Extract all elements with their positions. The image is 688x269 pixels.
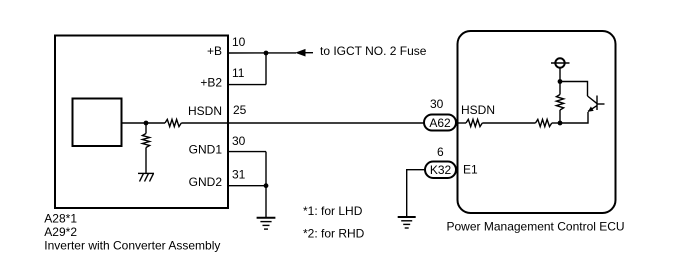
wire to transistor emitter node bbox=[552, 122, 560, 124]
earth ground (GND1/GND2) bbox=[257, 218, 276, 229]
svg-text:GND2: GND2 bbox=[189, 175, 223, 189]
inverter with converter assembly box A28/A29 bbox=[55, 36, 228, 209]
wire square to junction bbox=[122, 122, 147, 124]
resistor (inverter internal, horizontal on HSDN line) bbox=[146, 119, 181, 126]
chassis ground (inverter internal) bbox=[138, 173, 154, 181]
svg-text:6: 6 bbox=[437, 145, 444, 159]
wire junction to transistor collector bbox=[560, 82, 588, 97]
node junction on +B wire bbox=[264, 51, 269, 56]
svg-text:30: 30 bbox=[430, 97, 444, 111]
wire pull-up resistor to junction bbox=[559, 110, 561, 123]
svg-text:HSDN: HSDN bbox=[461, 103, 495, 117]
wire resistor to chassis ground bbox=[145, 148, 147, 174]
wire GND2 pin 31 bbox=[228, 185, 266, 187]
earth ground (E1) bbox=[398, 217, 416, 228]
wire power symbol down bbox=[559, 68, 561, 82]
svg-text:Power Management Control ECU: Power Management Control ECU bbox=[447, 220, 625, 234]
svg-text:*1: for LHD: *1: for LHD bbox=[303, 204, 363, 218]
node junction on GND2 wire bbox=[264, 183, 269, 188]
wire +B pin 10 bbox=[228, 52, 296, 54]
wire HSDN pin 25 to connector A62 bbox=[181, 122, 424, 124]
svg-text:A62: A62 bbox=[429, 116, 451, 130]
wire E1 to ground bbox=[407, 170, 425, 217]
svg-text:10: 10 bbox=[232, 35, 246, 49]
resistor (ECU pull-up, vertical) bbox=[556, 95, 563, 111]
wire junction down to +B2 bbox=[265, 53, 267, 85]
wire junction down to resistor bbox=[145, 123, 147, 134]
svg-text:GND1: GND1 bbox=[189, 142, 223, 156]
node junction at base of pull-up bbox=[558, 121, 563, 126]
resistor (inverter internal, vertical) bbox=[142, 134, 149, 148]
svg-text:A28*1: A28*1 bbox=[44, 211, 77, 225]
svg-text:E1: E1 bbox=[463, 162, 478, 176]
wire HSDN inside ECU to resistors bbox=[456, 122, 466, 124]
wire junction to earth ground bbox=[265, 186, 267, 218]
internal block (square) inside inverter bbox=[73, 99, 122, 147]
svg-text:*2: for RHD: *2: for RHD bbox=[303, 227, 365, 241]
arrow to IGCT NO. 2 Fuse bbox=[295, 49, 313, 57]
svg-text:+B: +B bbox=[207, 44, 222, 58]
node junction (inverter internal) bbox=[144, 121, 149, 126]
wire between ECU resistors bbox=[482, 122, 535, 124]
svg-text:30: 30 bbox=[232, 134, 246, 148]
wire junction down to pull-up resistor bbox=[559, 82, 561, 95]
wire GND1 pin 30 bbox=[228, 151, 266, 153]
svg-text:HSDN: HSDN bbox=[188, 104, 222, 118]
svg-text:to IGCT NO. 2 Fuse: to IGCT NO. 2 Fuse bbox=[320, 44, 427, 58]
wire +B2 pin 11 bbox=[228, 84, 266, 86]
svg-text:11: 11 bbox=[232, 66, 245, 80]
resistor (ECU, first on HSDN line) bbox=[466, 119, 482, 126]
power management control ECU box bbox=[458, 31, 616, 213]
connector K32 bbox=[425, 162, 456, 179]
svg-text:K32: K32 bbox=[430, 163, 452, 177]
power symbol (circle with bar) bbox=[551, 58, 570, 67]
resistor (ECU, second on HSDN line) bbox=[536, 119, 552, 126]
wire junction to transistor base leg bbox=[560, 112, 588, 123]
svg-text:25: 25 bbox=[233, 103, 247, 117]
wire GND1 down to GND2 bbox=[265, 152, 267, 186]
svg-text:31: 31 bbox=[232, 168, 246, 182]
svg-text:+B2: +B2 bbox=[200, 76, 222, 90]
svg-text:A29*2: A29*2 bbox=[44, 225, 77, 239]
connector A62 bbox=[424, 115, 456, 131]
node junction below power symbol bbox=[558, 79, 563, 84]
svg-text:Inverter with Converter Assemb: Inverter with Converter Assembly bbox=[44, 238, 220, 252]
transistor Q (ECU) bbox=[588, 96, 605, 112]
